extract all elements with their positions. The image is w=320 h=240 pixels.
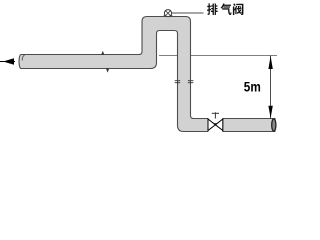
label char 阀 — [233, 3, 243, 15]
flange ticks on down pipe — [175, 81, 194, 83]
dimension line 5m vertical — [270, 56, 272, 119]
tick mark above pipe — [101, 51, 104, 55]
gate valve stem — [214, 113, 216, 118]
air release valve symbol (circle with X) — [162, 14, 167, 17]
gate valve center dot — [214, 123, 218, 126]
dimension extension line (top reference level) — [159, 55, 277, 57]
tick mark below pipe — [106, 69, 109, 73]
gate valve bowtie right — [215, 119, 222, 131]
flow arrow (left outlet) — [0, 61, 15, 63]
leader line to label — [172, 12, 204, 14]
pipe left end cap inner lip — [22, 55, 24, 60]
gate valve: pipe gap — [208, 118, 223, 133]
pipe right end cap — [272, 119, 276, 131]
pipe body (S-shaped run with inverted-U loop) — [19, 17, 275, 132]
label char 排 — [207, 3, 218, 15]
dimension arrow up — [268, 56, 272, 69]
label char 气 — [221, 3, 232, 15]
dimension arrow down — [268, 106, 272, 119]
gate valve bowtie left — [208, 119, 215, 131]
svg-text:5m: 5m — [244, 78, 261, 94]
